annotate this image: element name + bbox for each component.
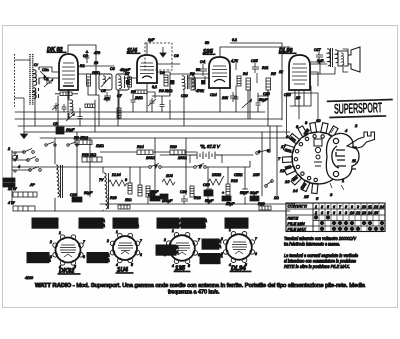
electrolytic C24 <box>160 194 168 199</box>
svg-text:R3 2MΩ: R3 2MΩ <box>159 89 173 93</box>
capacitor C6 <box>104 92 111 102</box>
svg-text:2: 2 <box>314 211 317 215</box>
svg-text:C1: C1 <box>44 77 49 81</box>
svg-text:R11: R11 <box>262 66 268 70</box>
svg-text:3: 3 <box>321 205 323 209</box>
svg-text:4,7k: 4,7k <box>231 59 238 63</box>
contact table frame <box>286 203 385 232</box>
svg-text:14: 14 <box>380 205 384 209</box>
resistor R17 ballast 4W <box>13 206 35 211</box>
svg-text:7: 7 <box>83 240 85 244</box>
contact table column numbers <box>314 205 384 215</box>
svg-text:0,1: 0,1 <box>152 85 157 89</box>
tube base V2 1U4 bottom view <box>110 233 139 262</box>
svg-text:60V 1mA: 60V 1mA <box>204 244 221 249</box>
svg-text:8: 8 <box>345 205 347 209</box>
switch S5 contacts <box>67 142 78 146</box>
oscillator coil L2 <box>68 90 73 119</box>
capacitor K7 dark <box>126 80 130 85</box>
tube V1 DK92 envelope <box>59 54 78 90</box>
bus y132 <box>24 131 290 133</box>
wire filament bus y163 <box>12 161 250 167</box>
resistor R5 <box>266 78 271 90</box>
svg-text:R20: R20 <box>170 145 177 149</box>
V3 voltage boxes top-right <box>181 218 207 228</box>
rotary switch wafer body <box>292 132 344 184</box>
svg-text:2: 2 <box>163 238 166 242</box>
wire left jack column <box>11 150 13 205</box>
V1 voltage boxes top-left <box>32 218 58 228</box>
loudspeaker LS <box>338 47 360 72</box>
wire vertical x250 <box>250 89 268 126</box>
resistor R19 horizontal <box>118 205 130 209</box>
switch S3 contacts <box>256 150 271 155</box>
svg-text:DL94: DL94 <box>112 173 121 177</box>
svg-text:R18 1kΩ: R18 1kΩ <box>82 153 96 157</box>
resistor R3 horizontal <box>135 90 147 93</box>
filament choke winding <box>104 173 109 209</box>
tube V3 internal electrodes <box>212 66 227 82</box>
svg-text:R12: R12 <box>231 179 238 183</box>
resistor R18 horizontal <box>82 157 102 162</box>
tube label V2 <box>127 48 140 54</box>
electrolytic C16 <box>72 197 82 202</box>
svg-text:77.5V 0.4mA: 77.5V 0.4mA <box>183 218 207 223</box>
shield dashed box <box>145 43 172 70</box>
wire vertical x184 <box>183 89 185 126</box>
tube V2 1U4 envelope <box>137 55 157 83</box>
trimmer arrow under tube3 <box>242 99 252 108</box>
resistor R3 <box>191 78 196 90</box>
switch S2b contacts <box>194 164 207 169</box>
svg-text:R13: R13 <box>194 196 201 200</box>
svg-text:87.5V 0.5mA: 87.5V 0.5mA <box>115 223 139 228</box>
svg-text:50pF: 50pF <box>259 98 268 102</box>
tube label V4 <box>279 48 296 54</box>
V3 pin numbers <box>163 229 200 268</box>
rotary switch index ticks <box>330 128 344 190</box>
svg-text:6: 6 <box>258 150 260 154</box>
svg-text:7: 7 <box>140 239 142 243</box>
svg-text:86V 7.2mA: 86V 7.2mA <box>202 253 223 258</box>
svg-text:C5: C5 <box>101 89 106 93</box>
svg-text:C20: C20 <box>180 190 187 194</box>
svg-text:12: 12 <box>280 168 285 173</box>
svg-text:5: 5 <box>267 149 269 153</box>
svg-text:16 W: 16 W <box>8 187 17 191</box>
svg-text:100Ω: 100Ω <box>146 156 155 160</box>
V4 voltage boxes top <box>225 218 248 228</box>
oscillator padder box <box>99 74 112 90</box>
svg-text:"B, 67.5 V: "B, 67.5 V <box>200 144 221 149</box>
wire row y152 <box>100 151 196 153</box>
resistor R1 <box>87 74 91 86</box>
svg-text:14: 14 <box>293 188 298 193</box>
svg-text:16: 16 <box>285 179 290 184</box>
svg-text:10: 10 <box>350 211 354 215</box>
svg-text:9: 9 <box>351 205 353 209</box>
svg-text:C14: C14 <box>210 93 217 97</box>
wire tube3 top feed <box>220 47 290 57</box>
svg-text:6: 6 <box>140 253 142 257</box>
tube V4 internal electrodes <box>292 64 307 84</box>
svg-text:PILE MIN: PILE MIN <box>288 221 305 226</box>
V1 voltage boxes bottom-left <box>27 252 51 262</box>
wire vertical x270 switch drop <box>269 126 271 152</box>
svg-text:15: 15 <box>304 194 309 199</box>
svg-text:10: 10 <box>94 61 98 65</box>
svg-text:SUPERSPORT: SUPERSPORT <box>334 100 383 117</box>
tube base V4 DL94 bottom view <box>224 232 255 263</box>
svg-text:200Ω: 200Ω <box>177 156 187 160</box>
resistor R16 ballast 16W <box>13 192 37 197</box>
svg-text:4: 4 <box>116 263 118 267</box>
svg-text:2: 2 <box>106 239 109 243</box>
wire C4 drop <box>205 60 257 84</box>
svg-text:11: 11 <box>352 158 356 163</box>
resistor R4 under tube1 <box>55 92 78 96</box>
antenna winding L1 <box>33 67 39 98</box>
svg-text:74V 0.35mA: 74V 0.35mA <box>183 223 206 228</box>
svg-text:91V 0.55mA: 91V 0.55mA <box>115 218 138 223</box>
svg-text:1MΩ: 1MΩ <box>96 144 104 148</box>
SUPERSPORT banner top rule <box>327 99 393 103</box>
svg-text:R19: R19 <box>110 196 117 200</box>
svg-text:5: 5 <box>327 211 329 215</box>
capacitor C8 <box>78 114 83 122</box>
filament resistor RF1 zigzag <box>108 180 127 186</box>
tube label V3 <box>203 49 215 55</box>
svg-text:DK92: DK92 <box>212 173 221 177</box>
svg-text:1: 1 <box>116 230 118 234</box>
capacitor C11 under tube2 <box>148 98 156 106</box>
svg-text:37.4V 0.6mA: 37.4V 0.6mA <box>81 223 105 228</box>
svg-text:1MΩ: 1MΩ <box>92 71 100 75</box>
resistor R6 horizontal <box>75 140 92 145</box>
wire vertical x95 <box>94 100 96 132</box>
svg-text:80μF: 80μF <box>84 191 93 195</box>
svg-text:25: 25 <box>295 96 300 100</box>
svg-text:5: 5 <box>131 263 133 267</box>
svg-text:0.1: 0.1 <box>232 38 237 42</box>
capacitor C10a <box>131 97 136 105</box>
wire IF2 to tube3 grid <box>188 77 209 79</box>
svg-text:1Ω: 1Ω <box>274 196 279 200</box>
bus y119 <box>15 118 282 120</box>
svg-text:WATT RADIO - Mod. Supersport.: WATT RADIO - Mod. Supersport. Una gamma … <box>35 283 365 289</box>
svg-text:CONTATTI: CONTATTI <box>288 204 308 209</box>
svg-text:R4: R4 <box>243 72 248 76</box>
svg-text:C2a: C2a <box>42 68 49 72</box>
battery B1 67.5V <box>197 152 215 160</box>
filament resistor RF3 zigzag <box>162 179 175 185</box>
svg-text:C6: C6 <box>110 67 115 71</box>
svg-text:50: 50 <box>205 41 209 45</box>
mains transformer T4 <box>56 165 63 198</box>
svg-text:R13: R13 <box>258 202 265 206</box>
svg-text:4: 4 <box>172 264 174 268</box>
svg-text:C16: C16 <box>284 93 291 97</box>
ground arrow in shield <box>160 47 166 57</box>
wire filament drops <box>130 167 245 204</box>
wire antenna coil to tube1 grid <box>39 67 59 78</box>
resistor R12 vertical <box>226 184 230 195</box>
svg-text:C3: C3 <box>83 54 88 58</box>
switch position numbers <box>278 118 358 201</box>
V1 voltage boxes top-right <box>79 218 105 228</box>
wire under tube1 drops <box>58 79 99 126</box>
tube V1 internal electrodes <box>62 63 75 86</box>
wire speaker secondary <box>343 49 348 72</box>
capacitor C15 <box>252 63 259 73</box>
wire tube4 bottom <box>290 86 311 106</box>
svg-text:470k: 470k <box>196 89 204 93</box>
twisted lead squiggle <box>12 155 17 159</box>
V3 voltage boxes top-left <box>157 218 182 228</box>
tube V3 1S5 envelope <box>209 57 230 88</box>
label boxes AP <box>3 178 15 187</box>
svg-text:38.5V 1.3mA: 38.5V 1.3mA <box>81 218 105 223</box>
ferrite rod antenna <box>30 54 33 105</box>
svg-text:C9: C9 <box>174 54 179 58</box>
tube V2 internal electrodes <box>140 63 154 78</box>
svg-text:3: 3 <box>107 253 109 257</box>
svg-text:9.4V 2.2mA: 9.4V 2.2mA <box>29 258 51 263</box>
component value labels middle section <box>7 122 279 206</box>
svg-text:RETE le altre in posizione PIL: RETE le altre in posizione PILE MAX. <box>284 264 350 269</box>
svg-text:2μF: 2μF <box>316 59 324 63</box>
note paragraph 1 <box>284 236 357 247</box>
svg-text:1: 1 <box>59 231 61 235</box>
svg-text:8: 8 <box>339 211 341 215</box>
svg-text:PILE MAX: PILE MAX <box>288 227 307 232</box>
svg-text:R9: R9 <box>190 72 195 76</box>
contact table dots <box>314 216 383 231</box>
svg-text:1: 1 <box>315 205 317 209</box>
svg-text:+: + <box>222 191 224 195</box>
electrolytic C25 <box>204 190 213 196</box>
svg-text:5: 5 <box>327 205 329 209</box>
V4 pin numbers <box>220 228 257 267</box>
svg-text:CN: CN <box>53 122 59 126</box>
svg-text:RETE: RETE <box>288 216 299 221</box>
wire vertical x330 speaker down <box>310 60 335 74</box>
svg-text:4130: 4130 <box>25 276 33 280</box>
svg-text:80V 8 mA: 80V 8 mA <box>202 259 220 264</box>
svg-text:1: 1 <box>172 229 174 233</box>
wire tube2 top <box>146 43 148 55</box>
svg-text:67V 1 mA: 67V 1 mA <box>34 218 52 223</box>
trimmer C2 arrow <box>40 71 46 77</box>
svg-text:10k: 10k <box>222 96 228 100</box>
svg-text:1: 1 <box>16 155 18 159</box>
wire tube1 plate to IF1 <box>78 66 114 95</box>
svg-text:50μF: 50μF <box>205 199 214 203</box>
capacitor C8 dark <box>201 80 206 85</box>
tube V4 DL96 envelope <box>289 55 310 90</box>
svg-text:25μF: 25μF <box>225 202 235 206</box>
svg-text:9: 9 <box>357 205 359 209</box>
svg-text:7: 7 <box>255 237 257 241</box>
resistor R8 vertical <box>237 76 241 86</box>
electrolytic C21 <box>222 196 231 201</box>
wire battery drop <box>190 155 222 163</box>
svg-text:10: 10 <box>316 118 321 123</box>
V4 voltage boxes bottom-left <box>200 253 223 263</box>
wire IF1 to tube2 grid <box>124 77 137 79</box>
wire antenna links <box>15 60 31 126</box>
svg-text:15: 15 <box>374 211 378 215</box>
note paragraph 2 <box>284 253 358 269</box>
svg-text:26V 0.05mA: 26V 0.05mA <box>158 218 182 223</box>
svg-text:1k: 1k <box>279 70 283 74</box>
svg-text:C16: C16 <box>70 193 77 197</box>
svg-text:C10: C10 <box>181 94 188 98</box>
V2 voltage boxes bottom-right <box>156 245 179 255</box>
svg-text:30μF: 30μF <box>250 191 259 195</box>
capacitor C7 dark <box>170 80 175 85</box>
svg-text:2MΩ: 2MΩ <box>134 96 143 100</box>
wire lower verticals <box>77 126 277 204</box>
svg-text:tra l'elettrodo interessato e: tra l'elettrodo interessato e massa. <box>284 242 340 247</box>
svg-text:50μF: 50μF <box>240 191 249 195</box>
svg-text:86V 4.3mA: 86V 4.3mA <box>227 218 248 223</box>
svg-text:1μF: 1μF <box>148 38 155 42</box>
bus y138 <box>40 137 290 139</box>
switch S6 contacts <box>265 180 274 188</box>
svg-text:24V 0.04mA: 24V 0.04mA <box>158 223 182 228</box>
svg-text:si intendono con commutatore i: si intendono con commutatore in posizion… <box>284 259 356 264</box>
svg-text:6: 6 <box>333 211 335 215</box>
svg-text:R6 47kΩ: R6 47kΩ <box>74 136 88 140</box>
electrolytic C19 <box>150 196 160 201</box>
switch S1b contacts <box>27 157 39 162</box>
V2 voltage boxes top <box>113 218 139 228</box>
svg-text:9: 9 <box>125 178 127 182</box>
svg-text:6: 6 <box>333 205 335 209</box>
jack contacts J1 <box>14 152 16 172</box>
rotary switch hub <box>314 139 322 166</box>
resistor R22 vertical <box>138 185 142 196</box>
IF transformer T1 box <box>116 74 129 90</box>
resistor R10 vertical <box>117 108 121 118</box>
svg-text:81V 0.4mA: 81V 0.4mA <box>89 258 110 263</box>
wire feeds to commutator <box>287 93 319 135</box>
svg-text:R1: R1 <box>80 64 85 68</box>
switch S1a contacts <box>23 149 35 154</box>
wire IF2 top <box>170 73 209 75</box>
V4 voltage boxes left <box>202 239 221 249</box>
resistor R9 <box>164 75 168 86</box>
resistor R24 vertical <box>190 186 194 197</box>
bus y211 <box>35 210 290 212</box>
svg-text:4: 4 <box>18 165 20 169</box>
electrolytic C22 <box>250 196 259 201</box>
tube base V3 1S5 bottom view <box>167 233 198 264</box>
capacitor C4 <box>200 64 207 76</box>
wire battery row <box>160 154 253 156</box>
resistor R4 <box>246 78 251 90</box>
IF transformer T2 winding <box>182 75 195 89</box>
svg-text:7V: 7V <box>99 178 104 182</box>
rotary switch arm to fork <box>347 132 375 149</box>
wire vertical x120 <box>118 90 120 119</box>
rotary switch contact lugs <box>282 123 338 194</box>
capacitor C18 <box>242 189 248 192</box>
svg-text:R5: R5 <box>271 72 276 76</box>
svg-text:2: 2 <box>49 240 52 244</box>
wire vertical drops tubes to buses <box>68 83 299 119</box>
capacitor C23 <box>256 100 261 108</box>
capacitor C44 under tube3 <box>234 94 239 102</box>
electrolytic CN <box>56 127 64 134</box>
svg-text:1kΩ: 1kΩ <box>125 198 132 202</box>
capacitor C10 <box>206 189 212 192</box>
svg-text:3: 3 <box>345 211 347 215</box>
svg-text:10μF: 10μF <box>66 128 75 132</box>
wire vertical x35 <box>34 90 36 126</box>
svg-text:C4: C4 <box>200 60 205 64</box>
svg-text:1U4: 1U4 <box>166 174 173 178</box>
variable capacitor C3 arrow <box>85 50 90 63</box>
svg-text:Tensioni misurate con voltmetr: Tensioni misurate con voltmetro 20000Ω/V <box>284 236 357 241</box>
svg-text:100μF: 100μF <box>162 199 173 203</box>
svg-text:C15: C15 <box>251 59 258 63</box>
svg-text:3: 3 <box>164 253 166 257</box>
wire tube2 plate to IF2 <box>157 64 180 95</box>
bus y126 <box>18 125 282 127</box>
svg-text:5: 5 <box>188 264 190 268</box>
svg-text:10V 1.5mA: 10V 1.5mA <box>29 252 50 257</box>
contact table text <box>288 204 308 232</box>
output transformer T3 <box>327 48 338 67</box>
svg-text:6: 6 <box>255 252 257 256</box>
V1 pin numbers <box>49 231 85 269</box>
svg-text:64V 1mA: 64V 1mA <box>204 239 221 244</box>
chassis dashed line left <box>14 54 16 107</box>
tube base V1 DK92 bottom view <box>53 235 83 265</box>
svg-text:14: 14 <box>368 211 372 215</box>
svg-text:470: 470 <box>94 51 100 55</box>
svg-text:50: 50 <box>196 68 200 72</box>
svg-text:10: 10 <box>362 205 366 209</box>
wire top bus tube1 <box>68 45 96 95</box>
ground symbol left <box>21 126 28 139</box>
wire tube4 plate to output transformer <box>310 62 325 86</box>
svg-text:Le tensioni e correnti segnala: Le tensioni e correnti segnalate in vert… <box>284 253 358 258</box>
switch S2a contacts <box>149 164 162 169</box>
trimmer C7a <box>62 104 67 112</box>
svg-text:C19: C19 <box>148 193 155 197</box>
capacitor C12 <box>160 102 165 110</box>
svg-text:61.5V 0.9mA: 61.5V 0.9mA <box>34 223 58 228</box>
svg-text:AP: AP <box>29 183 35 187</box>
SUPERSPORT banner bottom rule <box>329 115 386 118</box>
svg-text:1': 1' <box>199 165 202 169</box>
svg-text:C10: C10 <box>203 183 210 187</box>
svg-text:D8: D8 <box>160 71 165 75</box>
tube label V1 <box>47 47 66 53</box>
rotary switch wedge marks <box>285 128 311 190</box>
resistor R2 horizontal <box>85 104 95 107</box>
svg-text:4 W: 4 W <box>8 201 15 205</box>
component value labels top section <box>34 38 324 102</box>
svg-text:82V 4.7mA: 82V 4.7mA <box>227 223 248 228</box>
resistor R21 vertical <box>128 183 132 194</box>
bus y112 <box>15 111 265 113</box>
svg-text:R2: R2 <box>131 90 136 94</box>
filament resistor RF2 zigzag <box>208 176 224 185</box>
